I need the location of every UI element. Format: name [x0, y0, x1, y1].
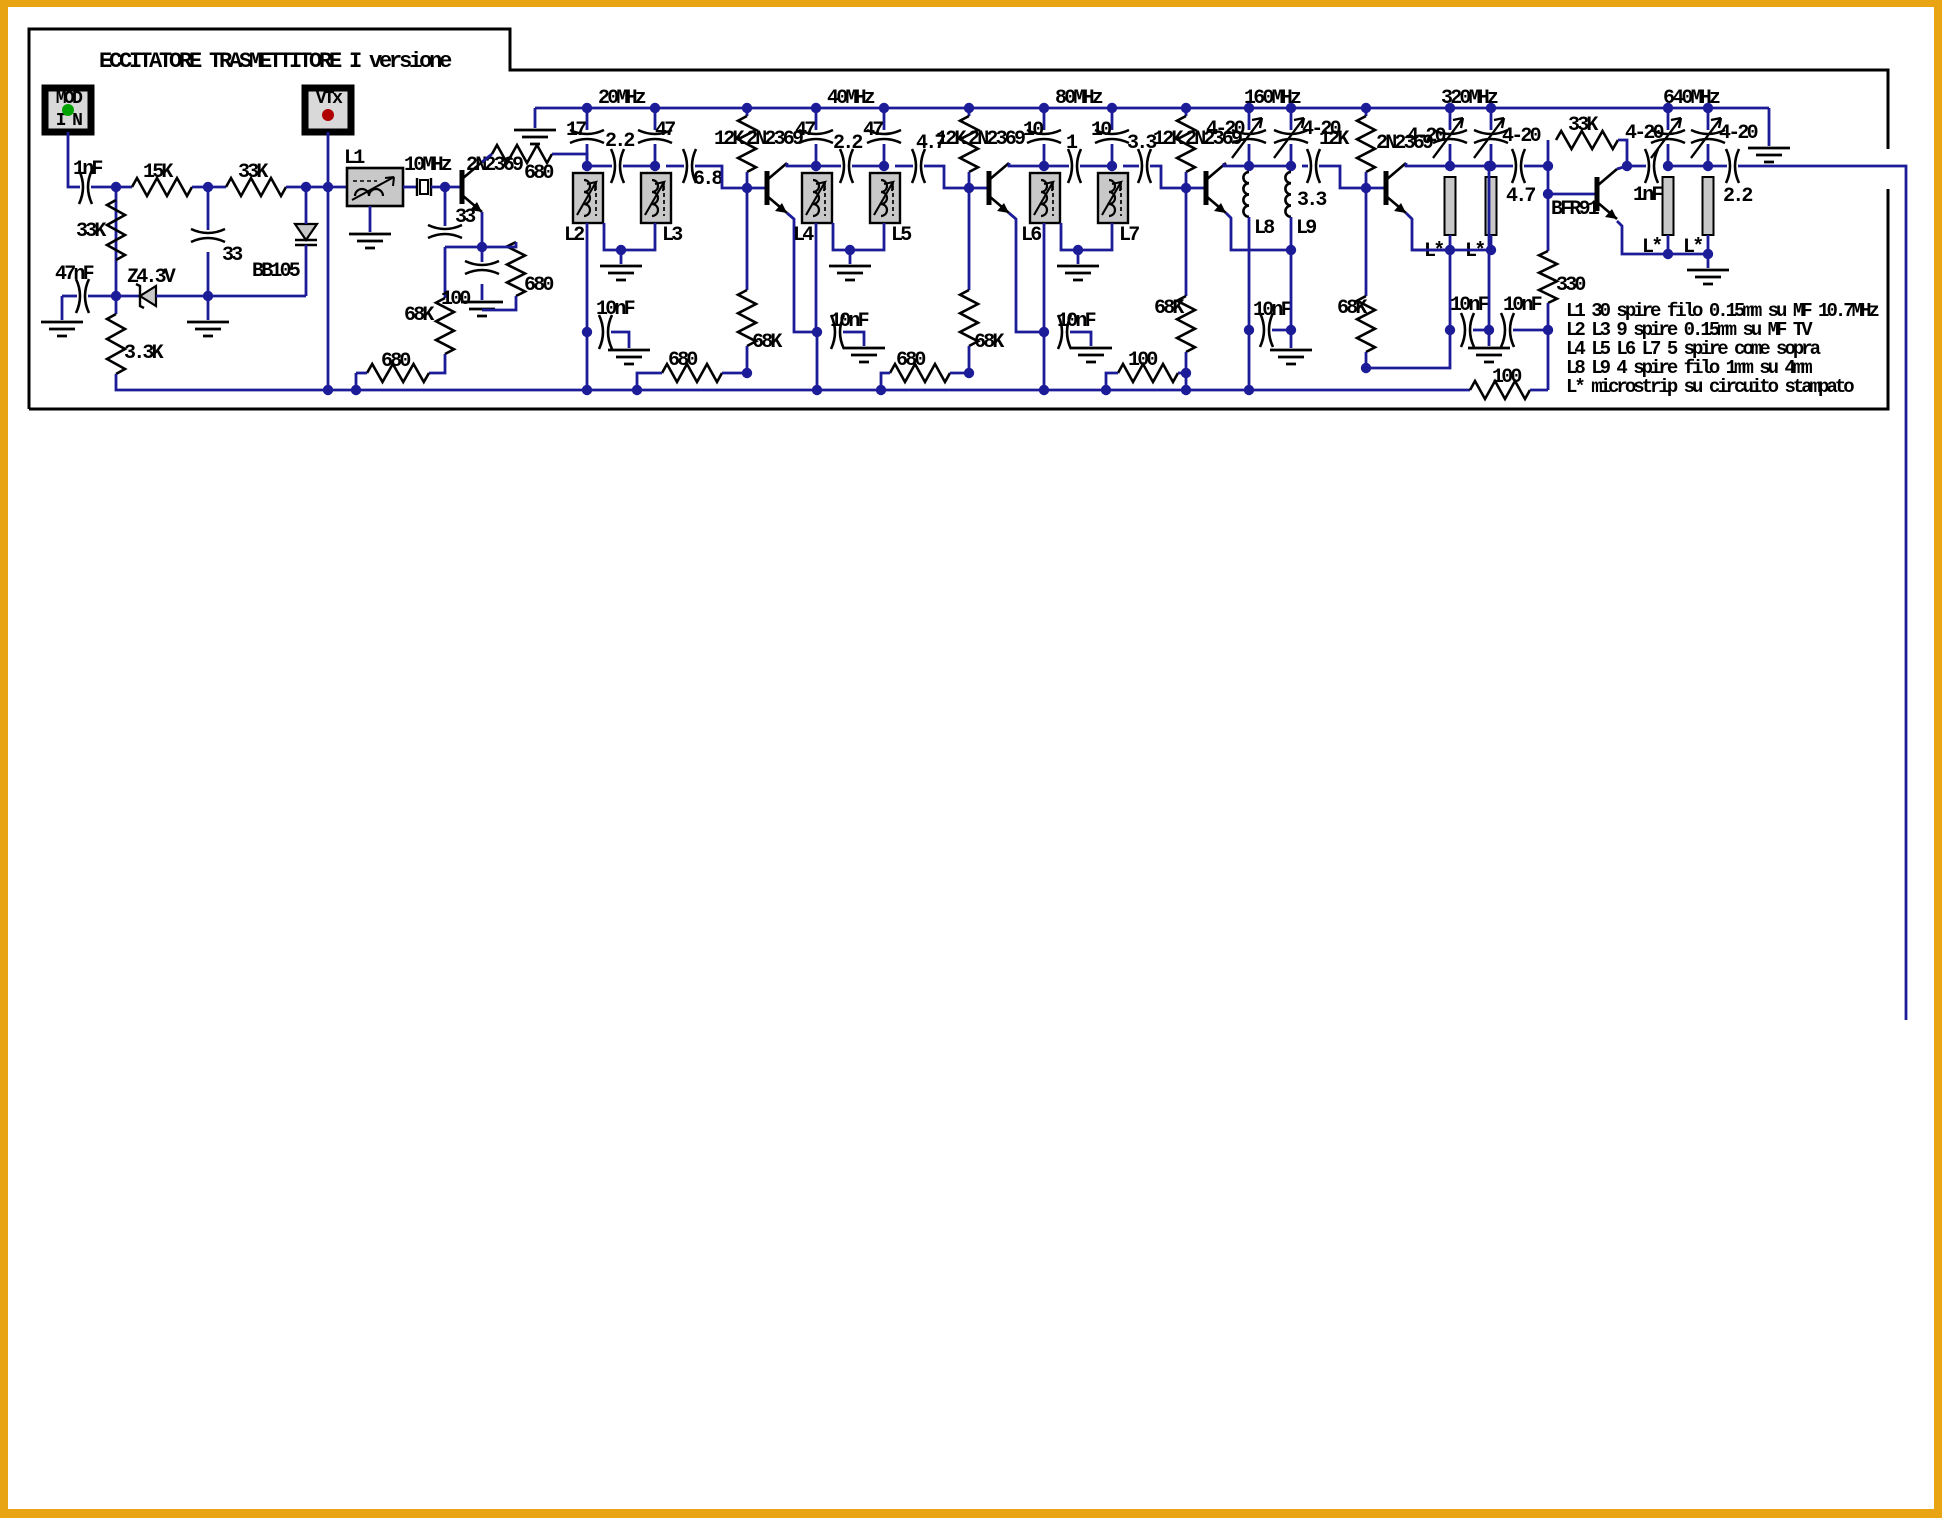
- ground rail left: [514, 130, 556, 144]
- wire 640 tank B upper: [1707, 108, 1710, 130]
- resistor 68K 2N2369 T3: [1177, 296, 1195, 352]
- svg-text:33: 33: [222, 244, 242, 267]
- wire 160 tank B lower: [1290, 144, 1293, 166]
- svg-text:L*: L*: [1424, 240, 1443, 263]
- wire L3 tap: [621, 223, 655, 250]
- capacitor 10nF 160: [1260, 313, 1273, 347]
- junction rail 160 A: [1244, 103, 1254, 113]
- svg-text:47nF: 47nF: [55, 263, 94, 286]
- wire 68K T4 to L* bias: [1366, 250, 1450, 368]
- wire L4 tap: [833, 223, 850, 250]
- capacitor interstage 80MHz: [1068, 149, 1081, 183]
- capacitor 33 input: [191, 229, 225, 242]
- wire 680 T1 to rail: [637, 373, 662, 390]
- wire 320 tank A upper: [1449, 108, 1452, 130]
- svg-text:BB105: BB105: [252, 260, 300, 283]
- wire 680 T2 right: [950, 372, 969, 375]
- svg-text:1nF: 1nF: [73, 158, 102, 181]
- wire 12K bottom 2N2369 T2: [968, 172, 971, 188]
- wire 33K left leg: [1547, 140, 1550, 194]
- ground L9: [1270, 350, 1312, 364]
- wire +V rail section 1: [535, 107, 1769, 110]
- svg-text:33: 33: [455, 206, 475, 229]
- wire 640 tank row: [1668, 165, 1708, 168]
- svg-text:12K: 12K: [714, 128, 744, 151]
- svg-text:17: 17: [566, 119, 586, 142]
- svg-text:680: 680: [896, 349, 925, 372]
- junction base node 2N2369 T2: [964, 183, 974, 193]
- wire L9 bottom: [1290, 217, 1293, 348]
- trimmer capacitor 4-20 320 A: [1433, 130, 1467, 143]
- transistor BFR91 s1: [1595, 177, 1600, 211]
- junction tank B 80MHz: [1107, 161, 1117, 171]
- wire down to 33K shunt: [115, 187, 118, 314]
- junction base node 2N2369 T3: [1181, 183, 1191, 193]
- inductor L1 box: [347, 168, 403, 206]
- trimmer capacitor 4-20 320 B: [1474, 130, 1508, 143]
- wire 320B to 4.7: [1491, 165, 1513, 168]
- wire 100 osc top: [481, 247, 484, 262]
- svg-text:68K: 68K: [1154, 297, 1184, 320]
- wire 68K T3 bottom: [1185, 352, 1188, 390]
- wire 68K T1 bottom: [746, 346, 749, 373]
- wire 320 signal to bias: [1488, 166, 1491, 330]
- wire base 2N2369 T4: [1366, 187, 1386, 190]
- svg-text:68K: 68K: [404, 304, 434, 327]
- transistor 2N2369 T1: [765, 171, 770, 205]
- svg-text:L7: L7: [1119, 224, 1139, 247]
- wire L8 bottom feed: [1248, 217, 1251, 390]
- capacitor 6.8 series: [683, 149, 696, 183]
- resistor 33K shunt: [107, 200, 125, 260]
- svg-text:680: 680: [668, 349, 697, 372]
- wire rail left ground stub: [534, 108, 537, 128]
- wire tank B 80MHz upper: [1111, 108, 1114, 130]
- svg-text:4.7: 4.7: [1506, 185, 1535, 208]
- wire BFR91 collector to 640 tank: [1617, 166, 1627, 169]
- wire 10nF 320b right: [1513, 329, 1548, 332]
- wire 10nF 320a right: [1473, 329, 1489, 332]
- capacitor 10 80MHz A: [1027, 130, 1061, 143]
- junction base node 2N2369 T4: [1361, 183, 1371, 193]
- wire taps to ground L2: [620, 250, 623, 264]
- wire L2 tap: [604, 223, 621, 250]
- ground tank L2: [600, 266, 642, 280]
- zener diode Z4.3V: [140, 286, 156, 306]
- wire osc emitter: [445, 212, 482, 247]
- wire base to 68K 2N2369 T1: [746, 188, 749, 290]
- junction rail 160 B: [1286, 103, 1296, 113]
- svg-text:33K: 33K: [1568, 114, 1598, 137]
- junction 320 A: [1445, 161, 1455, 171]
- inductor L2 shielded: [573, 173, 603, 223]
- ground 100 osc: [461, 302, 503, 316]
- junction 320 bias A: [1445, 245, 1455, 255]
- wire 160 tank A lower: [1248, 144, 1251, 166]
- junction 320 bias B: [1486, 245, 1496, 255]
- junction rail 12K 2N2369 T4: [1361, 103, 1371, 113]
- wire tank row 80MHz left: [1044, 165, 1069, 168]
- transistor 2N2369 oscillator: [460, 170, 465, 204]
- junction osc base: [440, 182, 450, 192]
- junction 320 signal mid: [1484, 161, 1494, 171]
- ground 10nF T2 em: [1070, 348, 1112, 362]
- resistor 3.3K: [107, 314, 125, 374]
- resistor 12K 2N2369 T1: [738, 116, 756, 172]
- svg-text:L5: L5: [891, 224, 911, 247]
- wire osc collector to 680: [482, 154, 492, 162]
- inductor L7 shielded: [1098, 173, 1128, 223]
- svg-text:VTx: VTx: [316, 89, 343, 109]
- wire 160 tank row: [1249, 165, 1291, 168]
- svg-text:680: 680: [381, 350, 410, 373]
- wire 47nF to zener: [88, 295, 140, 298]
- junction 160 A: [1244, 161, 1254, 171]
- wire taps to ground L4: [849, 250, 852, 264]
- svg-text:3.3K: 3.3K: [124, 342, 164, 365]
- ground tank L6: [1057, 266, 1099, 280]
- capacitor 4.7 series 320: [1512, 149, 1525, 183]
- wire bias T1 to rail: [816, 332, 819, 390]
- wire tank row 20MHz right: [623, 165, 655, 168]
- svg-text:12K: 12K: [1319, 128, 1349, 151]
- junction rail 40MHz B: [879, 103, 889, 113]
- capacitor 10nF T1 emitter: [831, 315, 844, 349]
- junction rail 640 B: [1703, 103, 1713, 113]
- wire L9 to 3.3: [1302, 165, 1308, 168]
- junction 160 B: [1286, 161, 1296, 171]
- junction 680 T1 rail: [632, 385, 642, 395]
- svg-text:10nF: 10nF: [596, 298, 635, 321]
- capacitor 33 osc emitter: [428, 225, 462, 238]
- capacitor 3.3 series 160: [1307, 149, 1320, 183]
- wire 680 to first tank node: [552, 154, 587, 166]
- junction 330 column: [1543, 325, 1553, 335]
- wire 12K top 2N2369 T1: [746, 108, 749, 116]
- wire tank A 80MHz lower: [1043, 144, 1046, 166]
- ground 10nF T1: [608, 350, 650, 364]
- wire BB105 bottom: [305, 245, 308, 296]
- junction osc emitter: [477, 242, 487, 252]
- svg-text:4-20: 4-20: [1206, 118, 1245, 141]
- junction L9 10nF: [1286, 325, 1296, 335]
- resistor 100 T3: [1118, 364, 1178, 382]
- svg-text:3.3: 3.3: [1127, 132, 1156, 155]
- wire L* 640B bottom: [1707, 235, 1710, 254]
- wire 330 to 100: [1547, 303, 1550, 390]
- wire T1 emitter to bias node: [787, 213, 817, 332]
- junction rail 640 A: [1663, 103, 1673, 113]
- wire 12K bottom 2N2369 T3: [1185, 172, 1188, 188]
- wire osc node to 680 vert: [482, 242, 516, 247]
- svg-text:1nF: 1nF: [1633, 184, 1662, 207]
- wire 12K top 2N2369 T3: [1185, 108, 1188, 116]
- junction 640 B: [1703, 161, 1713, 171]
- wire 33K right leg: [1618, 140, 1627, 166]
- wire 4.7 to T2 base: [924, 166, 969, 188]
- wire L5 tap: [850, 223, 884, 250]
- wire 100 to 330 column: [1530, 389, 1548, 392]
- junction 640 bias A: [1663, 249, 1673, 259]
- svg-text:2.2: 2.2: [605, 130, 634, 153]
- wire 15K to 33K: [192, 186, 226, 189]
- svg-text:L4: L4: [793, 224, 814, 247]
- capacitor 47 40MHz A: [799, 130, 833, 143]
- wire 10nF 320 mid ground: [1488, 330, 1491, 346]
- junction 68K T1 680: [742, 368, 752, 378]
- svg-text:L1: L1: [344, 147, 365, 170]
- resistor 330: [1539, 251, 1557, 303]
- svg-text:Z4.3V: Z4.3V: [127, 266, 176, 289]
- junction 15K 33K: [203, 182, 213, 192]
- wire VTx to bias rail: [327, 132, 330, 390]
- wire taps to ground L6: [1077, 250, 1080, 264]
- svg-text:68K: 68K: [974, 331, 1004, 354]
- junction 10nF 320 mid: [1484, 325, 1494, 335]
- capacitor 17 20MHz A: [570, 130, 604, 143]
- inductor L5 shielded: [870, 173, 900, 223]
- capacitor 47 40MHz B: [867, 130, 901, 143]
- wire base to 330: [1547, 194, 1550, 251]
- trimmer capacitor 4-20 160 A: [1232, 130, 1266, 143]
- wire T1 collector to 40MHz tank: [787, 163, 816, 166]
- wire 640 output down right edge: [1738, 166, 1906, 1020]
- junction rail 12K 2N2369 T1: [742, 103, 752, 113]
- capacitor 10nF 320 a: [1461, 313, 1474, 347]
- wire 10nF T2 em ground: [1070, 332, 1091, 346]
- resistor 15K: [132, 178, 192, 196]
- wire 160 tank B upper: [1290, 108, 1293, 130]
- capacitor 10 80MHz B: [1095, 130, 1129, 143]
- wire L* 320B bottom: [1490, 235, 1493, 250]
- wire 320 tank B upper: [1490, 108, 1493, 130]
- capacitor 1nF 640: [1645, 149, 1658, 183]
- port MOD IN section 1: [45, 88, 91, 132]
- wire 680 fb to rail: [355, 373, 358, 390]
- junction tank A 40MHz: [811, 161, 821, 171]
- wire crystal to osc base: [431, 186, 462, 189]
- junction 680 T2 rail: [876, 385, 886, 395]
- wire L5 to 4.7: [895, 165, 913, 168]
- wire T2 collector to 80MHz tank: [1009, 163, 1044, 166]
- svg-text:2N2369: 2N2369: [466, 154, 523, 177]
- wire base to 68K 2N2369 T2: [968, 188, 971, 290]
- wire 100 osc bottom: [481, 284, 484, 300]
- junction rail 320 A: [1445, 103, 1455, 113]
- svg-text:L*: L*: [1465, 240, 1484, 263]
- junction 47nF row: [111, 291, 121, 301]
- capacitor 47nF: [76, 279, 89, 313]
- junction rail 20MHz B: [650, 103, 660, 113]
- junction rail 12K 2N2369 T2: [964, 103, 974, 113]
- wire T4 collector to 320MHz tank: [1406, 163, 1450, 166]
- wire 320 tank row: [1450, 165, 1491, 168]
- junction rail 12K 2N2369 T3: [1181, 103, 1191, 113]
- ground 10nF 320: [1468, 348, 1510, 362]
- svg-text:12K: 12K: [1153, 128, 1183, 151]
- svg-text:L8: L8: [1254, 217, 1274, 240]
- wire 33 cap bottom: [207, 252, 210, 320]
- wire BFR91 emitter to L* bias 640: [1617, 221, 1668, 254]
- junction tank B 40MHz: [879, 161, 889, 171]
- wire 640 tank A lower: [1667, 144, 1670, 166]
- resistor 68K 2N2369 T2: [960, 290, 978, 346]
- wire tank B 40MHz lower: [883, 144, 886, 166]
- junction BB105 top: [301, 182, 311, 192]
- wire 4.7 to BFR91 node: [1524, 165, 1548, 168]
- svg-text:6.8: 6.8: [693, 168, 722, 191]
- svg-text:20MHz: 20MHz: [598, 87, 646, 110]
- svg-text:40MHz: 40MHz: [827, 87, 875, 110]
- wire MOD IN to input cap: [68, 132, 80, 187]
- wire tank row 20MHz left: [587, 165, 612, 168]
- svg-text:4-20: 4-20: [1502, 125, 1541, 148]
- svg-text:BFR91: BFR91: [1551, 198, 1600, 221]
- svg-text:2.2: 2.2: [833, 132, 862, 155]
- microstrip L* 640 A: [1663, 177, 1674, 235]
- ground 640 bias: [1687, 270, 1729, 284]
- junction rail 80MHz A: [1039, 103, 1049, 113]
- transistor 2N2369 T4: [1384, 171, 1389, 205]
- junction VTx main line: [323, 182, 333, 192]
- svg-text:2N2369: 2N2369: [968, 128, 1025, 151]
- svg-text:100: 100: [441, 288, 470, 311]
- wire osc 33 top: [444, 187, 447, 226]
- wire tank row 40MHz right: [852, 165, 884, 168]
- wire tank A 40MHz lower: [815, 144, 818, 166]
- svg-text:47: 47: [655, 119, 675, 142]
- junction 68K T2 680: [964, 368, 974, 378]
- wire 68K T2 bottom: [968, 346, 971, 373]
- wire 12K bottom 2N2369 T4: [1365, 172, 1368, 188]
- svg-text:680: 680: [524, 274, 553, 297]
- junction 640 A: [1663, 161, 1673, 171]
- wire 680 vert to ground node: [482, 296, 516, 310]
- svg-text:330: 330: [1556, 274, 1585, 297]
- svg-text:10: 10: [1023, 119, 1043, 142]
- ground 47nF: [41, 322, 83, 336]
- svg-text:4-20: 4-20: [1407, 125, 1446, 148]
- wire 100 T3 to rail: [1106, 373, 1118, 390]
- wire 320 bias row: [1412, 249, 1491, 252]
- capacitor 47 20MHz B: [638, 130, 672, 143]
- resistor 68K osc: [436, 298, 454, 354]
- wire rail right end down: [1768, 108, 1771, 146]
- junction 68K T3 rail: [1181, 385, 1191, 395]
- junction L9 emitter: [1286, 245, 1296, 255]
- wire 320 tank A lower: [1449, 144, 1452, 166]
- svg-text:47: 47: [863, 119, 883, 142]
- ground rail right: [1748, 148, 1790, 162]
- wire collector to 1nF: [1627, 165, 1646, 168]
- svg-text:4-20: 4-20: [1719, 122, 1758, 145]
- capacitor 10nF T2 emitter: [1058, 315, 1071, 349]
- svg-text:33K: 33K: [238, 161, 268, 184]
- junction T2 emitter bias: [1039, 327, 1049, 337]
- junction input node: [111, 182, 121, 192]
- svg-text:33K: 33K: [76, 220, 106, 243]
- junction 640 bias B: [1703, 249, 1713, 259]
- inductor L3 shielded: [641, 173, 671, 223]
- resistor 680 osc collector: [492, 145, 552, 163]
- svg-text:4-20: 4-20: [1625, 122, 1664, 145]
- capacitor interstage 20MHz: [611, 149, 624, 183]
- junction 680 fb rail: [351, 385, 361, 395]
- wire 33K to L1: [286, 186, 347, 189]
- wire L7 to 3.3: [1123, 165, 1139, 168]
- resistor 680 T2: [890, 364, 950, 382]
- junction 33cap ground: [203, 291, 213, 301]
- wire BB105 top: [305, 187, 308, 224]
- capacitor 1nF input: [79, 170, 92, 204]
- svg-text:3.3: 3.3: [1297, 189, 1326, 212]
- wire L* 320A bottom: [1449, 235, 1452, 250]
- svg-text:80MHz: 80MHz: [1055, 87, 1103, 110]
- svg-text:L* microstrip su circuito stam: L* microstrip su circuito stampato: [1566, 376, 1854, 398]
- capacitor 2.2 series 640: [1726, 149, 1739, 183]
- wire tank B 80MHz lower: [1111, 144, 1114, 166]
- wire osc 33 to 68K: [444, 247, 447, 298]
- wire T3 emitter to L9 node: [1226, 213, 1291, 250]
- junction 68K T3 100: [1181, 368, 1191, 378]
- junction rail 80MHz B: [1107, 103, 1117, 113]
- capacitor 10nF T1 tank: [599, 315, 612, 349]
- svg-text:L*: L*: [1642, 236, 1661, 259]
- junction L2 bias: [582, 327, 592, 337]
- wire 3.3 to T4 base: [1319, 166, 1366, 188]
- resistor 68K 2N2369 T1: [738, 290, 756, 346]
- wire base 2N2369 T3: [1186, 187, 1206, 190]
- wire bias T2 to rail: [1043, 332, 1046, 390]
- wire 640 tank A upper: [1667, 108, 1670, 130]
- wire 12K top 2N2369 T4: [1365, 108, 1368, 116]
- junction tank B 20MHz: [650, 161, 660, 171]
- resistor 100 s1 right: [1470, 381, 1530, 399]
- inductor L6 shielded: [1030, 173, 1060, 223]
- trimmer capacitor 4-20 640 B: [1691, 130, 1725, 143]
- wire 640 bias row: [1668, 253, 1708, 256]
- svg-text:15K: 15K: [143, 161, 173, 184]
- inductor L8: [1243, 172, 1249, 217]
- capacitor 3.3 series T3: [1138, 149, 1151, 183]
- wire L1 to crystal: [403, 186, 417, 189]
- wire T2 emitter to bias node: [1009, 213, 1044, 332]
- wire 33 cap top: [207, 187, 210, 230]
- ground 33 cap: [187, 322, 229, 336]
- junction base node 2N2369 T1: [742, 183, 752, 193]
- wire base 2N2369 T1: [747, 187, 767, 190]
- svg-text:10MHz: 10MHz: [404, 154, 452, 177]
- resistor 680 T1: [662, 364, 722, 382]
- svg-text:10nF: 10nF: [1503, 294, 1542, 317]
- junction tank taps L2: [616, 245, 626, 255]
- junction BFR91 base: [1543, 189, 1553, 199]
- wire 160 tank A upper: [1248, 108, 1251, 130]
- wire 680 fb left: [356, 372, 367, 375]
- junction 320 B: [1486, 161, 1496, 171]
- ground L1: [349, 234, 391, 248]
- junction L8 rail: [1244, 385, 1254, 395]
- wire L7 tap: [1078, 223, 1112, 250]
- wire 47nF to ground: [61, 296, 64, 320]
- junction tank taps L4: [845, 245, 855, 255]
- svg-text:10nF: 10nF: [830, 310, 869, 333]
- wire 680 T2 to rail: [881, 373, 890, 390]
- svg-text:10nF: 10nF: [1253, 299, 1292, 322]
- capacitor 4.7 series: [912, 149, 925, 183]
- svg-text:100: 100: [1128, 349, 1157, 372]
- wire 640 bias ground: [1707, 254, 1710, 268]
